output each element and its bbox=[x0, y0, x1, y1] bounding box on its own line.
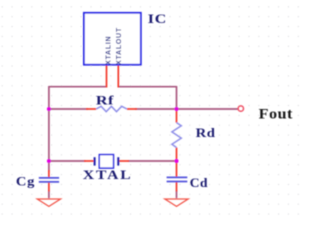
svg-text:Rf: Rf bbox=[96, 94, 115, 108]
svg-text:IC: IC bbox=[148, 12, 167, 26]
svg-text:XTAL: XTAL bbox=[83, 168, 133, 182]
svg-text:XTALOUT: XTALOUT bbox=[116, 27, 123, 65]
svg-text:Rd: Rd bbox=[196, 126, 216, 140]
svg-text:Fout: Fout bbox=[259, 106, 293, 122]
svg-text:Cg: Cg bbox=[16, 174, 35, 188]
svg-text:Cd: Cd bbox=[190, 176, 209, 190]
svg-text:XTALIN: XTALIN bbox=[105, 36, 112, 65]
